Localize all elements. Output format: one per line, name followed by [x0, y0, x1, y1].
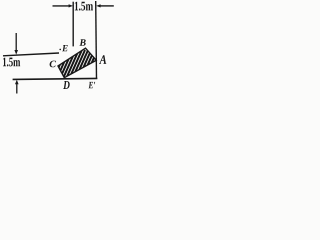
label B [79, 39, 85, 46]
top dimension right line [100, 5, 114, 7]
label D [63, 81, 70, 89]
point dot at E [59, 49, 61, 51]
left dimension label 1.5m [3, 58, 20, 67]
extension line from B (left tick) [72, 2, 74, 47]
right edge (square side through A) [95, 1, 98, 79]
label E [62, 45, 68, 51]
label C [50, 61, 57, 68]
left dimension lower arrow (up) [16, 83, 18, 94]
label E' [88, 82, 95, 88]
parallelogram outline C-B-A-D [58, 48, 96, 77]
background [0, 0, 130, 103]
hatching of parallelogram [46, 50, 110, 82]
bottom edge D-E' [13, 78, 98, 79]
left reference line [3, 53, 59, 56]
label A [99, 55, 106, 64]
top dimension right arrowhead [96, 4, 100, 7]
top dimension left line [53, 5, 70, 7]
left dimension upper arrow (down) [15, 33, 17, 51]
top dimension left arrowhead [69, 4, 73, 7]
top dimension label 1.5m [75, 2, 93, 11]
